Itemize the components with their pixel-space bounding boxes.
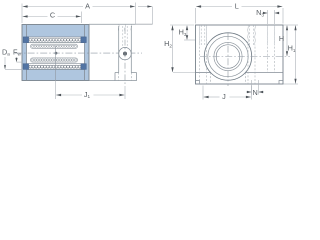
dimension J <box>202 86 204 100</box>
bushing bore band (white) <box>27 37 85 69</box>
top surface line <box>89 23 153 25</box>
housing block (section, blue) <box>22 25 89 81</box>
svg-text:C: C <box>50 11 55 20</box>
svg-text:Da: Da <box>2 47 10 56</box>
svg-text:A: A <box>85 2 90 11</box>
ball row top <box>29 38 81 41</box>
bushing outer circle <box>208 36 248 76</box>
dimension H3 <box>170 24 194 26</box>
bore hidden edges below step <box>210 73 212 85</box>
dimension H2 <box>172 26 174 72</box>
ball track lower <box>31 58 78 62</box>
ball row bottom <box>29 65 81 68</box>
bottom surface line between views <box>89 80 115 82</box>
svg-text:H3: H3 <box>179 28 187 37</box>
bolt hole right (threaded) <box>247 25 250 45</box>
base of middle view <box>115 73 137 81</box>
seal cap bottom-right <box>81 64 86 70</box>
vertical centerline left view <box>55 46 57 81</box>
svg-text:H2: H2 <box>164 39 172 48</box>
dimension C <box>81 12 83 24</box>
lube boss column <box>118 26 120 73</box>
foot relief notch right <box>279 81 283 85</box>
svg-text:H: H <box>279 34 284 43</box>
dimension N3 <box>267 10 269 24</box>
lube hole dot (left view) <box>55 52 58 55</box>
base step line <box>196 72 211 74</box>
crosshair centerlines <box>200 56 290 58</box>
break lines at boss top <box>117 24 120 31</box>
svg-text:J1: J1 <box>84 90 91 99</box>
ball track upper <box>31 44 78 48</box>
bushing sleeve inner lines <box>27 42 85 44</box>
horizontal centerline <box>15 52 142 54</box>
svg-text:N: N <box>253 88 258 97</box>
dimension H1 <box>284 83 299 85</box>
dimension A continuation / lube boss extension frame <box>152 7 154 25</box>
vertical centerline middle view <box>124 28 126 86</box>
grease hole (threaded) <box>266 25 269 45</box>
housing bore circle <box>204 33 251 80</box>
svg-text:J: J <box>222 92 226 101</box>
svg-text:N3: N3 <box>256 8 264 17</box>
svg-text:L: L <box>235 2 239 11</box>
side lube hole dot <box>123 52 127 56</box>
boss hidden lines in base <box>118 73 120 81</box>
seal cap top-left <box>23 37 28 43</box>
housing end plate faces <box>26 25 28 81</box>
svg-text:H1: H1 <box>288 44 296 53</box>
bore circle <box>216 45 240 69</box>
dimension A <box>21 4 23 24</box>
lube hole hidden lines in boss <box>122 26 124 47</box>
housing outline <box>196 25 284 84</box>
seal circle <box>214 42 242 70</box>
bolt hole left (threaded) <box>198 25 201 45</box>
dimension L <box>195 8 197 24</box>
foot relief notch left <box>196 81 200 85</box>
dimension N <box>251 80 253 95</box>
svg-text:Fw: Fw <box>13 47 21 56</box>
side lube hole circle <box>119 47 131 59</box>
seal cap top-right <box>81 37 86 43</box>
dimension J1 <box>55 81 57 100</box>
dimension H <box>284 24 299 26</box>
seal cap bottom-left <box>23 64 28 70</box>
